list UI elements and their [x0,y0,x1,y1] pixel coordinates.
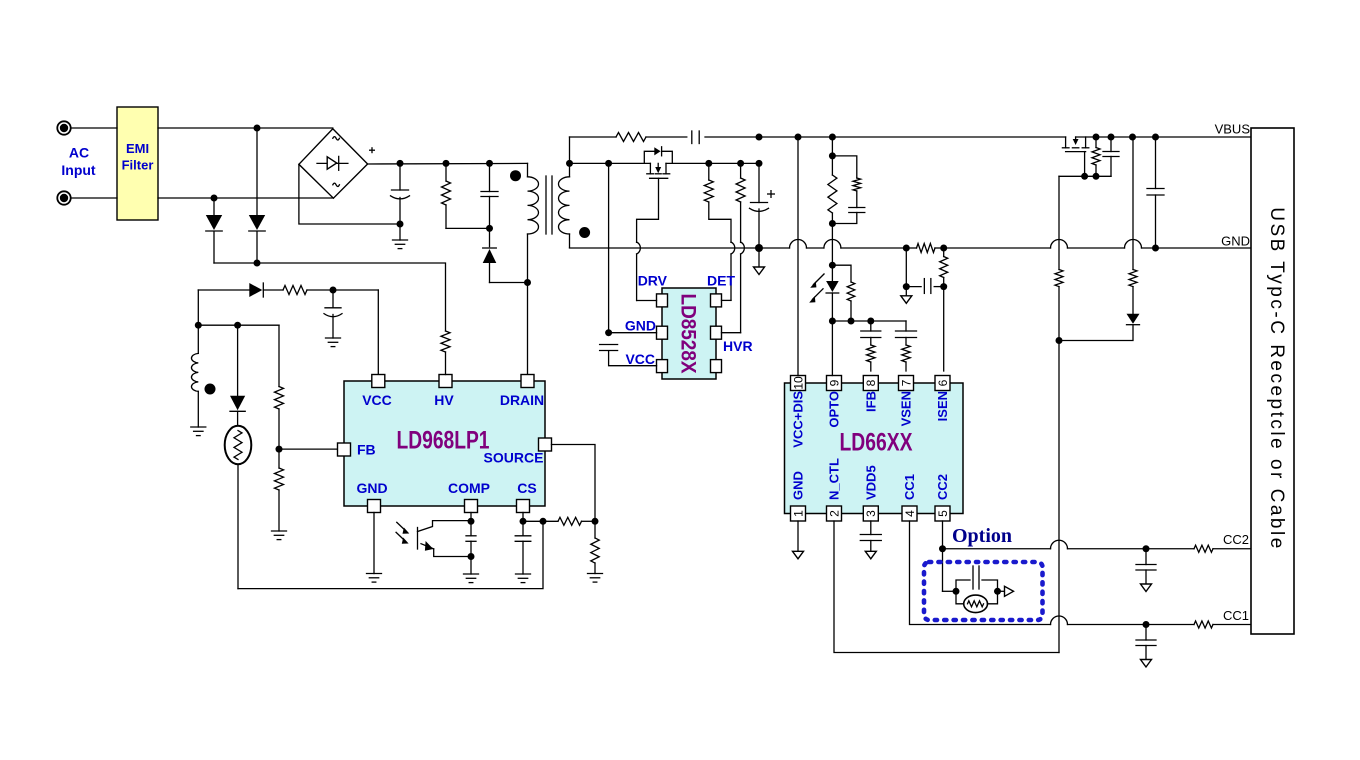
svg-text:2: 2 [827,510,841,517]
U5 pin 7 [899,376,914,391]
wire SOURCE to CS-R [552,445,596,522]
svg-text:GND: GND [791,471,806,500]
label GND [1221,234,1250,249]
resistor R20 (VBUS detect) [1129,137,1137,287]
capacitor C11 (COMP) [466,513,476,561]
wire sec gnd row [570,247,907,249]
U2 label VCC [625,351,655,367]
optocoupler LED U3a [826,262,839,325]
wire Q1 gate [637,178,659,242]
T1 primary polarity dot [510,170,521,181]
label Option [952,525,1012,547]
hop opto-R over gnd row [824,240,841,249]
svg-text:VCC: VCC [362,392,392,408]
option output arrow [998,586,1014,596]
svg-text:6: 6 [936,379,950,386]
diode D2 [249,128,265,263]
ground (bulk cap) [393,240,408,249]
capacitor C7 + resistor R8 (IFB) [861,321,881,371]
resistor R5 (opto pull-up) [828,137,837,265]
wire OPTO to pin9 [831,321,833,376]
svg-text:FB: FB [357,442,376,458]
node output gnd [755,244,763,252]
transformer T1 secondary winding [559,137,570,248]
IC U5 LD66XX [785,383,964,514]
node secondary top [566,160,573,167]
ground (COMP) [464,557,479,583]
U2 label DET [707,273,735,289]
node top line / D2 [254,125,261,132]
L1 polarity dot [205,384,216,395]
resistor R1 (clamp) [442,160,490,229]
resistor R21 (CC2) [1194,545,1251,552]
svg-text:DET: DET [707,273,735,289]
svg-text:HVR: HVR [723,338,753,354]
diode D1 [206,198,222,263]
svg-text:10: 10 [791,376,805,390]
svg-text:ISEN: ISEN [935,391,950,421]
capacitor C14 (gate) [1103,137,1119,176]
U5 title LD66XX [840,429,913,457]
svg-text:IFB: IFB [863,391,878,412]
U5 label VCC+DIS [791,391,806,448]
svg-text:LD8528X: LD8528X [677,294,700,374]
node D2 to HV row [254,260,261,267]
svg-text:GND: GND [1221,234,1250,249]
capacitor C16 (CC2) [1136,549,1156,584]
wire CC2 row [939,521,1194,591]
SR MOSFET Q1 [647,163,670,178]
hop OPTO over gnd row [790,240,807,249]
ground (CS cap) [516,574,531,583]
USB Type-C receptacle box [1251,128,1294,634]
svg-text:CC1: CC1 [1223,608,1249,623]
svg-text:5: 5 [936,510,950,517]
wire VCC to U1 [377,290,379,375]
wire gnd row right [944,245,1251,252]
ground (U1 GND) [367,513,382,583]
wire FB [279,448,338,450]
U1 pin FB [338,442,376,458]
resistor R22 (CC1) [1194,621,1251,628]
wire EMI to bridge bottom [158,197,333,199]
U2 pin DET [711,294,732,307]
U3b light arrows [396,522,410,544]
U5 pin 3 [863,506,878,521]
terminal J2 (AC neutral) [57,191,70,204]
resistor R17 (CS gnd) [591,521,599,573]
U5 label OPTO [827,391,842,428]
svg-text:COMP: COMP [448,480,490,496]
hop gate over CC1 [1051,616,1068,625]
svg-text:Option: Option [952,525,1012,547]
svg-text:AC: AC [69,145,89,161]
svg-text:HV: HV [434,392,454,408]
resistor R2 (sec snubber) [570,133,647,142]
wire U2 gnd column [608,163,610,332]
capacitor C17 (CC1) [1136,625,1156,660]
svg-text:VCC: VCC [625,351,655,367]
diode D5 (FB) [230,325,245,426]
capacitor C8 + resistor R9 (VSEN) [896,321,917,371]
wire sec top row [570,160,651,167]
IC U1 LD968LP1 [344,381,545,506]
label AC Input [61,145,96,179]
ground (VDD5) [865,551,876,559]
capacitor C2 (clamp) [481,160,498,232]
optocoupler transistor U3b [418,521,471,557]
VBUS rail left [756,134,1066,141]
U5 pin 8 [863,376,878,391]
svg-text:LD968LP1: LD968LP1 [397,427,490,455]
SR MOSFET Q1 body diode [644,147,672,164]
svg-text:4: 4 [903,510,917,517]
capacitor C9 (ISEN filter) [906,279,947,294]
wire N_CTL [834,521,1059,653]
capacitor C15 (VBUS) [1147,137,1164,248]
PMOS Q2 [1062,137,1088,152]
node bottom line / D1 [211,195,218,202]
IC U2 LD8528X [662,288,716,379]
svg-text:VBUS: VBUS [1215,122,1251,137]
ground (output) [754,248,765,275]
wire Q2 gate [1084,152,1086,177]
U5 label CC2 [935,474,950,500]
svg-text:LD66XX: LD66XX [840,429,913,457]
svg-text:EMI: EMI [126,141,149,156]
wire shunt left leg [903,248,910,290]
svg-text:1: 1 [791,510,805,517]
U2 pin HVR [711,326,741,339]
U5 label N_CTL [827,458,842,500]
ground (divider) [272,531,287,540]
wire bridge + to transformer [368,162,528,165]
capacitor C4 (output) [750,163,769,248]
label CC2 [1223,532,1249,547]
hop HVR over gnd row [741,242,745,254]
photoresistor/regulator U4 [225,426,252,589]
diode D6 (detect) [1059,287,1140,341]
ground (shunt) [901,287,912,304]
U2 label HVR [723,338,753,354]
VBUS rail right [1076,134,1251,141]
label + (bridge output) [369,147,375,153]
aux winding L1 [191,353,198,427]
svg-text:VDD5: VDD5 [863,465,878,500]
U1 pin GND [356,480,387,513]
resistor R23 (option, circled) [956,588,1001,613]
wire aux node column [195,290,202,353]
svg-text:GND: GND [625,318,656,334]
wire J1 to EMI [71,127,117,129]
U5 pin 2 [827,506,842,521]
U5 pin 9 [827,376,842,391]
wire opto node row [832,318,906,325]
U1 pin DRAIN [500,375,544,409]
ground (VCC cap) [326,338,341,347]
label + (output cap) [767,190,775,198]
U1 pin CS [517,480,537,513]
wire CS node [523,518,558,525]
diode D4 (VCC rect) [198,283,283,297]
USB label [1266,207,1287,551]
label EMI Filter [122,141,154,173]
svg-text:USB Typc-C Receptcle or Cable: USB Typc-C Receptcle or Cable [1266,207,1287,551]
U1 title LD968LP1 [397,427,490,455]
wire HV sense row [214,263,446,331]
ground (CC2) [1141,584,1152,592]
svg-text:N_CTL: N_CTL [827,458,842,500]
U5 label VSEN [899,391,914,426]
terminal J1 (AC line) [57,121,70,134]
resistor R15 (HV) [441,331,450,375]
resistor R10 (shunt) [903,244,947,253]
wire ISEN to pin6 [943,287,945,371]
ground (aux winding) [191,427,206,436]
resistor R11 (ISEN) [940,248,948,287]
wire bridge - return [299,164,400,224]
svg-text:8: 8 [864,379,878,386]
wire sec row to DET/HVR [666,160,763,167]
svg-text:GND: GND [356,480,387,496]
svg-text:DRAIN: DRAIN [500,392,544,408]
U1 pin SOURCE [484,438,552,466]
wire option left [943,588,960,595]
svg-text:DRV: DRV [638,273,668,289]
U5 pin 4 [902,506,917,521]
U2 pin GND [605,326,667,339]
U2 label DRV [638,273,668,289]
U5 pin 5 [935,506,950,521]
svg-text:3: 3 [864,510,878,517]
wire CC1 row [910,521,1195,628]
wire DET lower [730,254,732,300]
T1 secondary polarity dot [579,227,590,238]
U2 pin NC [711,360,722,373]
resistor R12 (VCC) [283,286,378,295]
U5 label GND [791,471,806,500]
resistor R19 (gate drive) [1055,270,1063,345]
capacitor C5 (U2 VCC) [600,345,618,351]
svg-text:CC1: CC1 [902,474,917,500]
U2 label GND [625,318,656,334]
option dashed box [924,562,1043,620]
U1 pin HV [434,375,454,409]
hop gate over CC2 [1051,540,1068,549]
wire gate column lower [1058,341,1060,653]
resistor R3 (DET) [704,163,731,242]
resistor R14 (divider lo) [275,449,284,531]
label VBUS [1215,122,1251,137]
resistor R6 + cap C6 (RC) [832,156,864,224]
wire VCC+DIS column [797,137,799,376]
wire HVR lower [740,254,742,333]
svg-text:VSEN: VSEN [899,391,914,426]
hop gate line over gnd row [1051,240,1068,249]
wire CS return (long) [238,521,543,588]
T1 core [546,176,552,234]
svg-text:OPTO: OPTO [827,391,842,428]
wire EMI to bridge top [158,127,333,129]
label CC1 [1223,608,1249,623]
U1 pin VCC [362,375,392,409]
ground (CS resistor) [588,574,603,583]
U2 pin DRV [637,294,668,307]
capacitor C10 (VCC) [324,290,342,338]
svg-text:CC2: CC2 [935,474,950,500]
wire Q1 gate lower [636,254,638,301]
resistor R7 (LED parallel) [832,265,854,324]
bridge rectifier BD1 [299,129,368,198]
svg-text:VCC+DIS: VCC+DIS [791,391,806,448]
U5 label IFB [863,391,878,412]
U5 label VDD5 [863,465,878,500]
capacitor C18 (option) [956,566,998,591]
U1 pin COMP [448,480,490,513]
svg-text:Filter: Filter [122,158,154,173]
svg-text:SOURCE: SOURCE [484,450,544,466]
transformer T1 primary winding [528,163,539,374]
hop VBUS-R over gnd row [1125,240,1142,249]
wire gate drive column [1058,176,1060,269]
hop DET over gnd row [731,242,735,254]
ground (U5 pin1) [793,521,804,559]
U5 label ISEN [935,391,950,421]
U3a emission arrows [809,274,824,303]
U2 pin VCC [609,351,668,373]
ground (CC1) [1141,660,1152,668]
U5 pin 10 [791,376,806,391]
resistor R4 (HVR) [736,163,745,242]
svg-text:CC2: CC2 [1223,532,1249,547]
resistor R16 (CS) [558,517,599,525]
capacitor C3 (sec snubber) [646,131,759,144]
capacitor C13 (VDD5) [860,521,881,551]
U2 title LD8528X [677,294,700,374]
wire J2 to EMI [71,197,117,199]
U5 pin 6 [935,376,950,391]
EMI filter block [117,107,158,220]
U5 label CC1 [902,474,917,500]
svg-text:7: 7 [899,379,913,386]
resistor R18 (gate pull-up) [1092,137,1100,176]
capacitor C1 (bulk) [391,160,410,240]
wire gate node row [1059,173,1111,180]
diode D3 (clamp) [483,228,531,286]
U5 pin 1 [791,506,806,521]
svg-text:CS: CS [517,480,536,496]
capacitor C12 (CS filter) [515,513,531,575]
node FB [276,446,283,453]
hop DRV over gnd row [637,242,641,254]
resistor R13 (divider hi) [275,325,284,449]
svg-text:Input: Input [61,162,96,178]
wire aux to FB branch [198,322,279,329]
svg-text:9: 9 [827,379,841,386]
